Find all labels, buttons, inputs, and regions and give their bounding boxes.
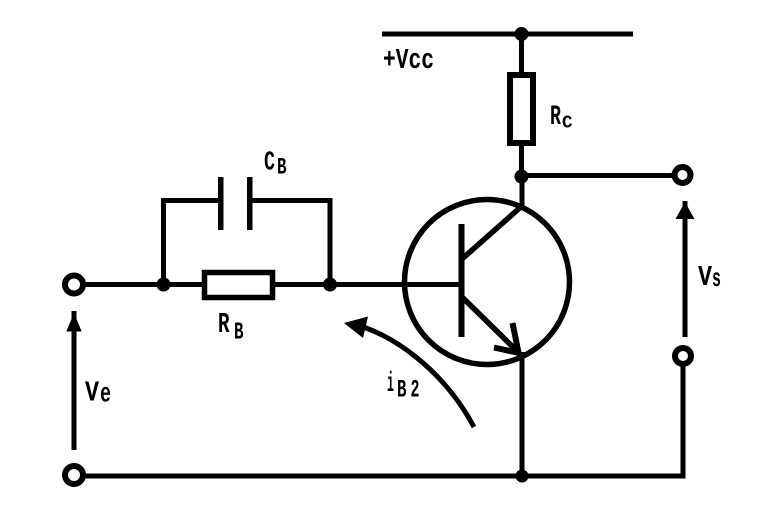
- transistor Q1 collector diagonal: [462, 205, 523, 259]
- terminal input bottom: [65, 466, 83, 484]
- svg-text:e: e: [100, 380, 111, 411]
- label RB: [218, 308, 244, 347]
- node input junction: [157, 278, 171, 292]
- transistor Q1 emitter arrowhead barb up: [513, 323, 520, 355]
- svg-text:V: V: [85, 377, 99, 410]
- node RB right junction: [323, 278, 337, 292]
- svg-text:2: 2: [411, 376, 420, 405]
- capacitor CB plates: [218, 177, 253, 230]
- svg-text:s: s: [712, 264, 721, 294]
- wire input terminal to base: [83, 282, 462, 287]
- transistor Q1 emitter arrowhead barb left: [494, 348, 519, 354]
- arrow iB2 curved: [344, 317, 474, 428]
- wire capacitor right leg: [253, 201, 331, 285]
- terminal output bottom: [675, 348, 691, 364]
- terminal input top: [65, 276, 83, 294]
- wire top Vcc rail: [382, 32, 633, 37]
- label Rc: [550, 102, 573, 134]
- wire collector node to output terminal: [522, 173, 673, 178]
- svg-text:R: R: [550, 102, 561, 133]
- svg-text:V: V: [698, 261, 712, 294]
- transistor Q1 base bar: [459, 224, 465, 337]
- svg-text:R: R: [218, 308, 230, 341]
- arrow Vs: [676, 201, 695, 337]
- terminal output top: [675, 167, 691, 183]
- wire emitter vertical: [520, 352, 525, 476]
- wire collector vertical: [520, 176, 525, 208]
- label Ve: [85, 377, 111, 411]
- wire output bottom terminal to ground rail: [681, 364, 686, 476]
- wire bottom ground rail: [84, 474, 686, 479]
- label iB2: [387, 369, 420, 405]
- wire Vcc rail to Rc: [519, 34, 524, 76]
- wire capacitor left leg: [164, 201, 219, 285]
- resistor RB: [205, 273, 273, 298]
- svg-text:C: C: [562, 114, 573, 134]
- node Vcc junction: [515, 27, 529, 41]
- node emitter junction: [516, 470, 529, 483]
- svg-text:B: B: [277, 155, 287, 181]
- label CB: [264, 149, 287, 181]
- node collector junction: [515, 170, 529, 184]
- transistor Q1 circle: [405, 200, 570, 365]
- svg-text:B: B: [234, 320, 244, 347]
- svg-text:+Vcc: +Vcc: [383, 44, 434, 77]
- arrow Ve: [66, 311, 81, 450]
- transistor Q1 emitter diagonal: [462, 297, 518, 352]
- resistor RC: [510, 75, 533, 143]
- svg-text:B: B: [397, 376, 407, 405]
- wire Rc to collector node: [519, 143, 524, 178]
- svg-text:C: C: [264, 149, 275, 179]
- svg-text:i: i: [387, 369, 394, 400]
- label Vs: [698, 261, 721, 294]
